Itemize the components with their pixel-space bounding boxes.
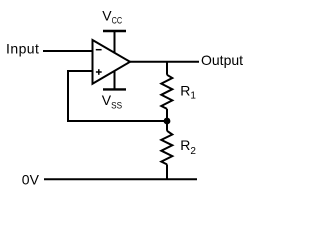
svg-text:Input: Input — [6, 41, 39, 57]
wire op-amp to Vss bar — [114, 72, 116, 90]
wire op-amp output to Output — [129, 61, 199, 63]
wire junction down to R2 — [166, 121, 168, 131]
svg-text:Output: Output — [201, 52, 243, 68]
svg-text:0V: 0V — [22, 172, 40, 188]
wire feedback vertical — [67, 70, 69, 121]
wire feedback horizontal from plus input — [67, 70, 93, 72]
wire Vcc to op-amp — [114, 31, 116, 54]
wire 0V rail — [44, 178, 197, 180]
op-amp inverting input minus sign — [96, 49, 102, 51]
op-amp U1 — [93, 40, 131, 84]
resistor R1 — [161, 75, 172, 109]
wire R1 to junction — [166, 109, 168, 121]
wire input to op-amp inverting input — [43, 50, 93, 52]
wire R2 to 0V rail — [166, 164, 168, 179]
wire output branch down to R1 — [166, 61, 168, 75]
wire feedback horizontal to junction — [67, 120, 167, 122]
op-amp non-inverting input plus sign — [96, 69, 102, 75]
resistor R2 — [161, 131, 172, 165]
power Vcc bar — [103, 30, 126, 32]
power Vss bar — [103, 88, 126, 90]
node junction between R1 and R2 — [164, 118, 171, 125]
